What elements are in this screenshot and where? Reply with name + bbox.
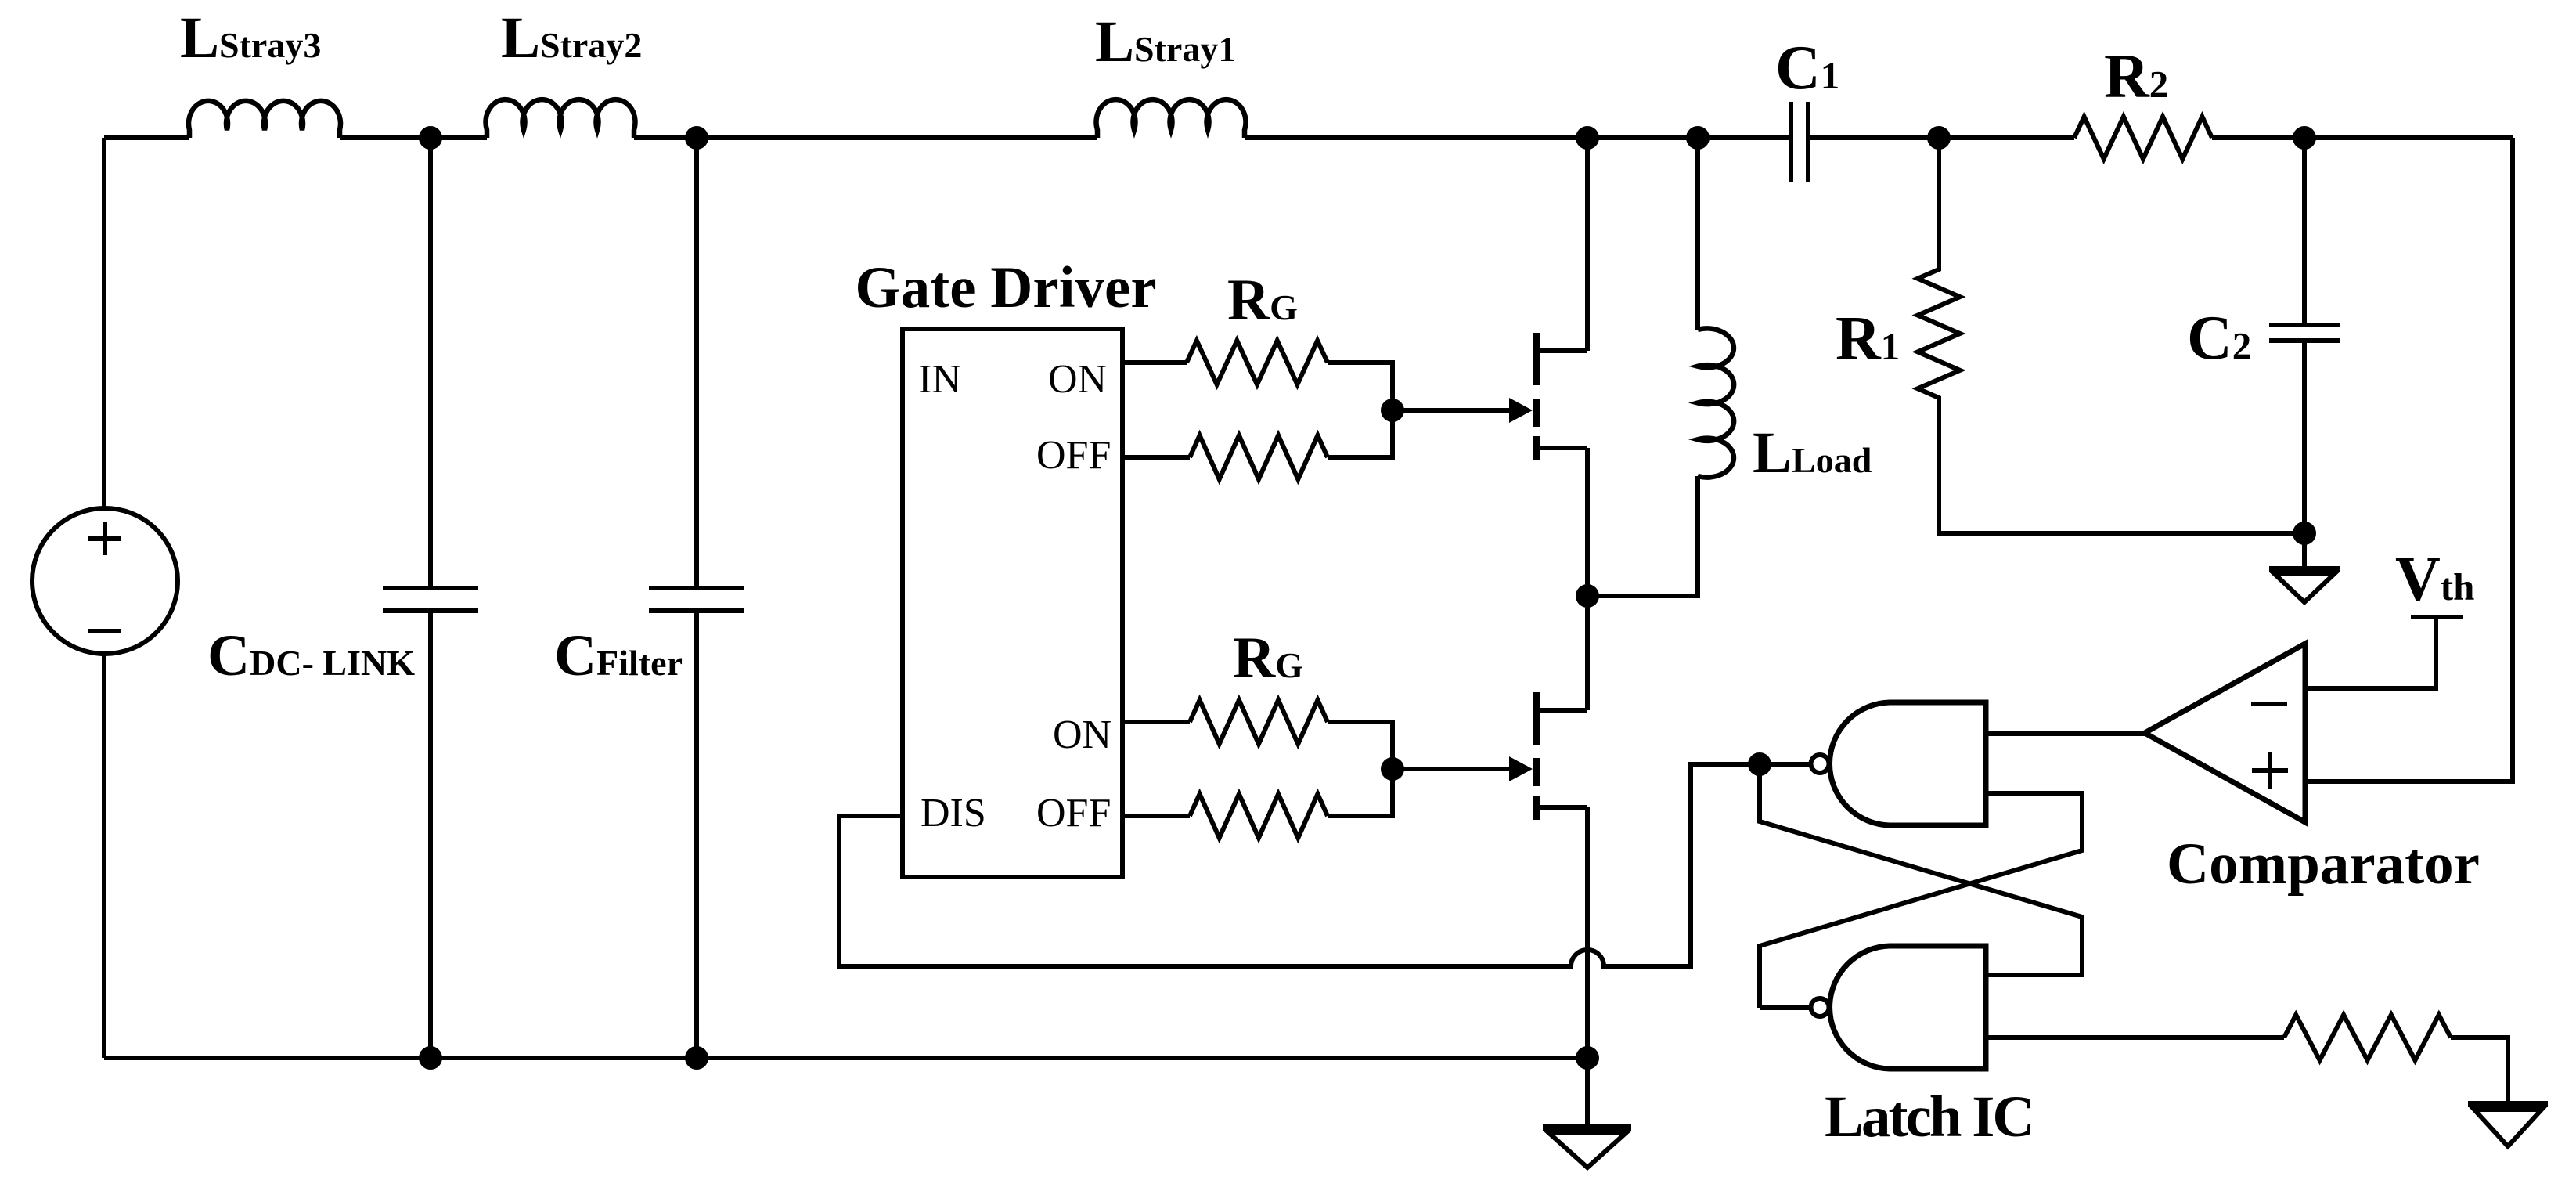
svg-text:RG: RG — [1233, 626, 1303, 691]
svg-text:ON: ON — [1048, 357, 1107, 402]
svg-text:IN: IN — [918, 357, 961, 402]
svg-text:LStray2: LStray2 — [501, 5, 642, 70]
svg-text:OFF: OFF — [1036, 433, 1111, 478]
svg-text:C1: C1 — [1775, 34, 1839, 103]
svg-text:LStray3: LStray3 — [180, 5, 321, 70]
svg-text:CDC- LINK: CDC- LINK — [207, 623, 415, 688]
svg-text:ON: ON — [1053, 713, 1111, 757]
svg-text:LStray1: LStray1 — [1095, 9, 1236, 74]
svg-text:LLoad: LLoad — [1753, 420, 1872, 485]
svg-text:R1: R1 — [1836, 305, 1900, 374]
svg-text:C2: C2 — [2187, 304, 2251, 373]
svg-text:CFilter: CFilter — [554, 623, 683, 688]
svg-text:RG: RG — [1227, 268, 1298, 333]
svg-text:Vth: Vth — [2395, 545, 2474, 614]
svg-text:DIS: DIS — [921, 791, 986, 836]
svg-text:Comparator: Comparator — [2167, 832, 2480, 897]
svg-text:Latch IC: Latch IC — [1825, 1085, 2033, 1149]
svg-text:R2: R2 — [2104, 42, 2168, 111]
svg-text:Gate Driver: Gate Driver — [855, 255, 1156, 320]
svg-text:OFF: OFF — [1036, 791, 1111, 836]
